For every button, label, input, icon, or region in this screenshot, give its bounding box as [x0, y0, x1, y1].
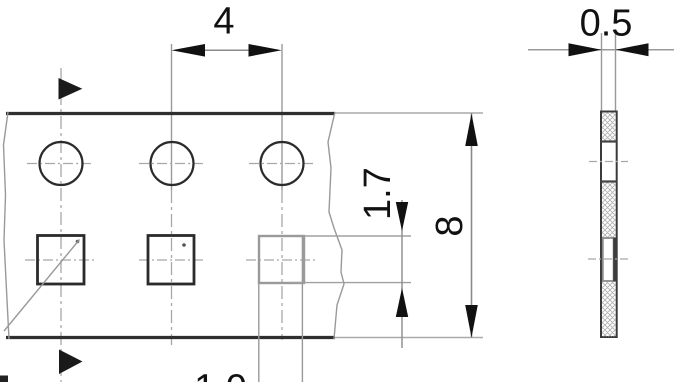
dimension 4: dimension line	[204, 49, 250, 51]
dimension 0.5: dimension line	[528, 49, 674, 51]
dimension 0.5: right arrow (pointing left)	[616, 43, 649, 56]
dimension 1.7: bottom extension line	[290, 282, 411, 284]
centerline column 3	[281, 44, 283, 190]
dimension 1.7: upper arrow (pointing down)	[396, 202, 408, 231]
tape right break line	[328, 112, 344, 339]
pocket 3 (light)	[259, 236, 304, 283]
dimension 1.7: lower arrow (pointing up)	[396, 288, 408, 317]
centerline column 1 (through first sprocket hole and pocket)	[60, 68, 62, 382]
centerline column 2	[171, 44, 173, 190]
horizontal centerline sprocket hole 3	[249, 163, 315, 165]
side view: hatch top section	[602, 113, 616, 142]
dimension 8: bottom arrow (pointing down)	[465, 305, 478, 338]
svg-text:1.0: 1.0	[194, 368, 247, 382]
tape bottom edge	[6, 336, 335, 339]
horizontal centerline pocket 2	[139, 259, 205, 261]
dimension 8: dimension line	[471, 114, 473, 338]
side view: sprocket centerline tick	[589, 161, 628, 163]
svg-text:0.5: 0.5	[580, 3, 633, 45]
svg-text:1.7: 1.7	[357, 167, 399, 220]
pocket 2 index dot	[182, 243, 186, 247]
dimension 1.7: dimension line	[401, 200, 403, 348]
side view: tape cross-section body	[601, 112, 617, 338]
dimension 4: left arrow	[172, 44, 206, 57]
horizontal centerline pocket 3	[246, 259, 315, 261]
side view: sprocket window top divider	[601, 140, 618, 142]
pocket 2	[148, 236, 194, 285]
dimension 4: right arrow	[249, 44, 282, 57]
pocket 1	[38, 236, 85, 285]
feed direction triangle bottom	[59, 350, 83, 375]
side view: pocket centerline tick	[588, 258, 631, 260]
dimension 1.0 (cut off): left extension line	[258, 237, 260, 382]
side view: ext line right for 0.5	[615, 33, 617, 112]
side view: hatch middle section	[602, 183, 616, 238]
svg-text:8: 8	[429, 215, 471, 236]
dimension 1.0 (cut off): right extension line	[301, 237, 303, 382]
side view: pocket window outline	[603, 238, 614, 281]
dimension 1.7: top extension line	[303, 235, 411, 237]
tape left break line	[4, 112, 10, 339]
tape bottom edge extension line	[335, 337, 483, 339]
diagonal mark through pocket 1	[4, 240, 80, 332]
horizontal centerline pocket 1	[25, 259, 95, 261]
sprocket hole 3	[261, 142, 304, 185]
side view: hatch bottom section	[602, 282, 616, 337]
feed direction triangle top	[59, 78, 83, 100]
tape top edge	[6, 112, 335, 115]
pocket 1 index dot	[76, 240, 80, 244]
tape top edge extension line	[335, 112, 483, 114]
horizontal centerline sprocket hole 2	[139, 163, 205, 165]
sprocket hole 2	[151, 142, 194, 185]
side view: pocket cover bar (right)	[613, 238, 617, 282]
dimension 0.5: left arrow (pointing right)	[569, 43, 602, 56]
side view: ext line left for 0.5	[601, 33, 603, 112]
side view: sprocket window bottom divider	[601, 180, 618, 182]
sprocket hole 1	[40, 142, 83, 185]
svg-text:4: 4	[213, 1, 234, 43]
dimension 8: top arrow (pointing up)	[465, 114, 478, 147]
horizontal centerline sprocket hole 1	[27, 163, 94, 165]
partial glyph bottom-left corner	[0, 376, 8, 382]
